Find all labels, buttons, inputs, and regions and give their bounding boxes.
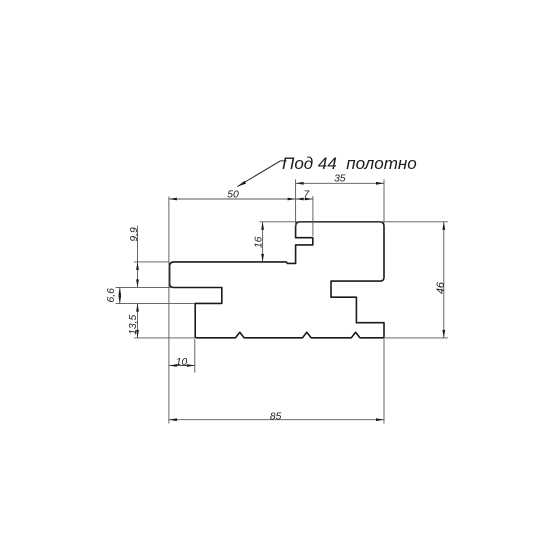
svg-text:10: 10	[176, 357, 188, 368]
door frame profile cross-section outline	[170, 222, 384, 338]
extension line x=194.8	[194, 339, 196, 373]
arrows 35	[296, 182, 304, 185]
dimension line 50 and 7	[169, 198, 313, 200]
arrows 16	[261, 222, 264, 230]
svg-text:35: 35	[334, 174, 346, 185]
arrows 9,9	[136, 262, 139, 270]
extension line x=384 bottom	[383, 339, 385, 424]
extension line y=337.9 right	[384, 337, 448, 339]
extension line y=337.9 left	[134, 337, 195, 339]
dimension line 16	[262, 222, 264, 262]
svg-text:6,6: 6,6	[106, 288, 117, 303]
svg-text:16: 16	[254, 236, 265, 248]
arrows 46	[442, 222, 445, 230]
arrows 50	[169, 198, 177, 201]
dimension line 10	[169, 365, 195, 367]
svg-text:13,5: 13,5	[128, 315, 139, 335]
arrows 6,6	[118, 287, 121, 295]
extension line x=312.9	[312, 196, 314, 236]
dimension line 9,9	[137, 226, 139, 288]
arrows 85	[169, 418, 177, 421]
svg-text:46: 46	[435, 282, 447, 294]
extension line y=303.6	[116, 303, 195, 305]
dimension line 13,5	[137, 304, 139, 338]
arrows 7	[296, 198, 304, 201]
svg-text:9,9: 9,9	[129, 227, 140, 242]
extension line long left	[168, 197, 170, 424]
extension line y=287.4	[116, 286, 172, 288]
extension line x=295.6 top	[295, 179, 297, 226]
svg-text:85: 85	[270, 411, 282, 422]
svg-text:50: 50	[227, 189, 239, 200]
leader line	[237, 161, 286, 187]
svg-text:Под 44 полотно: Под 44 полотно	[282, 154, 417, 173]
extension line x=384 top	[383, 179, 385, 222]
extension line y=261.9	[134, 261, 170, 263]
dimension line 6,6	[119, 287, 121, 303]
dimension line 46	[443, 222, 445, 338]
leader arrowhead	[237, 181, 246, 187]
dimension line 35	[296, 182, 384, 184]
extension line y=221.8 horizontal	[260, 221, 448, 223]
arrows 10	[169, 364, 177, 367]
dimension line 85	[169, 419, 384, 421]
arrows 13,5	[136, 304, 139, 312]
